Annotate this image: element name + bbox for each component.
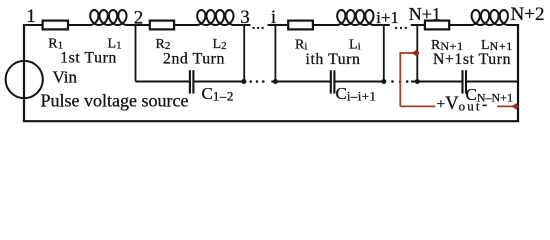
wire CN-N+1 to right vertical: [467, 81, 518, 83]
wire to node N+1 junction: [411, 81, 462, 83]
red arrowhead at node N+1 drop: [412, 50, 420, 57]
inductor Li: [337, 10, 375, 25]
ellipsis capacitor rail left group: [249, 80, 264, 83]
svg-text:2: 2: [134, 8, 144, 29]
svg-text:N+2: N+2: [511, 4, 545, 25]
wire node 3 drop: [243, 25, 245, 82]
resistor R2: [150, 21, 174, 30]
wire L2 to node3: [234, 24, 251, 26]
svg-text:ith Turn: ith Turn: [306, 51, 361, 68]
svg-text:Pulse voltage source: Pulse voltage source: [41, 90, 189, 110]
wire top rail: node1 corner to R1: [23, 24, 43, 26]
svg-text:1: 1: [26, 6, 36, 27]
wire node i+1 drop: [383, 25, 385, 82]
wire bottom rail: [23, 120, 519, 122]
red Vout tap: horizontal arrow segment at node N+1: [400, 52, 413, 54]
junction node i bottom: [273, 79, 278, 84]
junction node 3 bottom: [241, 79, 246, 84]
voltage source V1 circle: [6, 61, 43, 98]
wire node i junction to Ci-i+1: [271, 81, 330, 83]
inductor L2: [197, 10, 235, 25]
wire Ci-i+1 to node i+1 junction: [335, 81, 383, 83]
junction node i+1 bottom: [381, 79, 386, 84]
wire node i drop: [274, 25, 276, 82]
wire LN+1 to node N+2 corner: [508, 24, 519, 26]
svg-text:N+1: N+1: [409, 4, 441, 24]
svg-text:Vin: Vin: [53, 68, 78, 87]
ellipsis capacitor rail right group: [391, 80, 408, 83]
wire L1 to node2 to R2: [127, 24, 150, 26]
inductor L1: [90, 10, 128, 25]
wire Li to node i+1: [374, 24, 390, 26]
junction node N+1 bottom: [415, 79, 420, 84]
svg-text:i: i: [271, 7, 276, 28]
wire left vertical from node1 through source to bottom rail: [23, 24, 25, 121]
red horizontal wire to +Vout- label: [400, 105, 435, 107]
svg-text:3: 3: [240, 7, 250, 28]
svg-text:1st Turn: 1st Turn: [60, 50, 117, 67]
resistor RN+1: [425, 21, 449, 30]
wire C1-2 to node3 junction: [194, 81, 244, 83]
capacitor Ci-i+1 plates: [331, 70, 335, 93]
svg-text:i+1: i+1: [376, 8, 399, 27]
wire node i to Ri: [268, 24, 289, 26]
ellipsis top rail between node i+1 and node N+1: [395, 27, 407, 29]
ellipsis top rail between node 3 and node i: [252, 27, 263, 29]
wire RN+1 to LN+1: [449, 24, 472, 26]
wire R1 to L1: [69, 24, 91, 26]
resistor Ri: [288, 21, 313, 30]
capacitor CN-N+1 plates: [463, 70, 467, 93]
red horizontal wire from label to node N+2 bottom: [497, 105, 515, 107]
wire right vertical node N+2 down to bottom rail: [517, 24, 519, 121]
red vertical wire x=400: [399, 52, 401, 106]
inductor LN+1: [471, 10, 509, 25]
wire R2 to L2: [174, 24, 197, 26]
wire node N+1 to RN+1: [411, 24, 425, 26]
red arrowhead at right vertical: [512, 103, 520, 109]
wire Ri to Li: [313, 24, 338, 26]
wire node2 to C1-2: [136, 81, 189, 83]
resistor R1: [43, 21, 68, 30]
wire node N+1 drop: [416, 25, 418, 82]
wire node 2 drop: [135, 25, 137, 82]
svg-text:2nd Turn: 2nd Turn: [163, 51, 225, 68]
svg-text:N+1st Turn: N+1st Turn: [433, 51, 511, 68]
capacitor C1-2 plates: [190, 70, 194, 93]
